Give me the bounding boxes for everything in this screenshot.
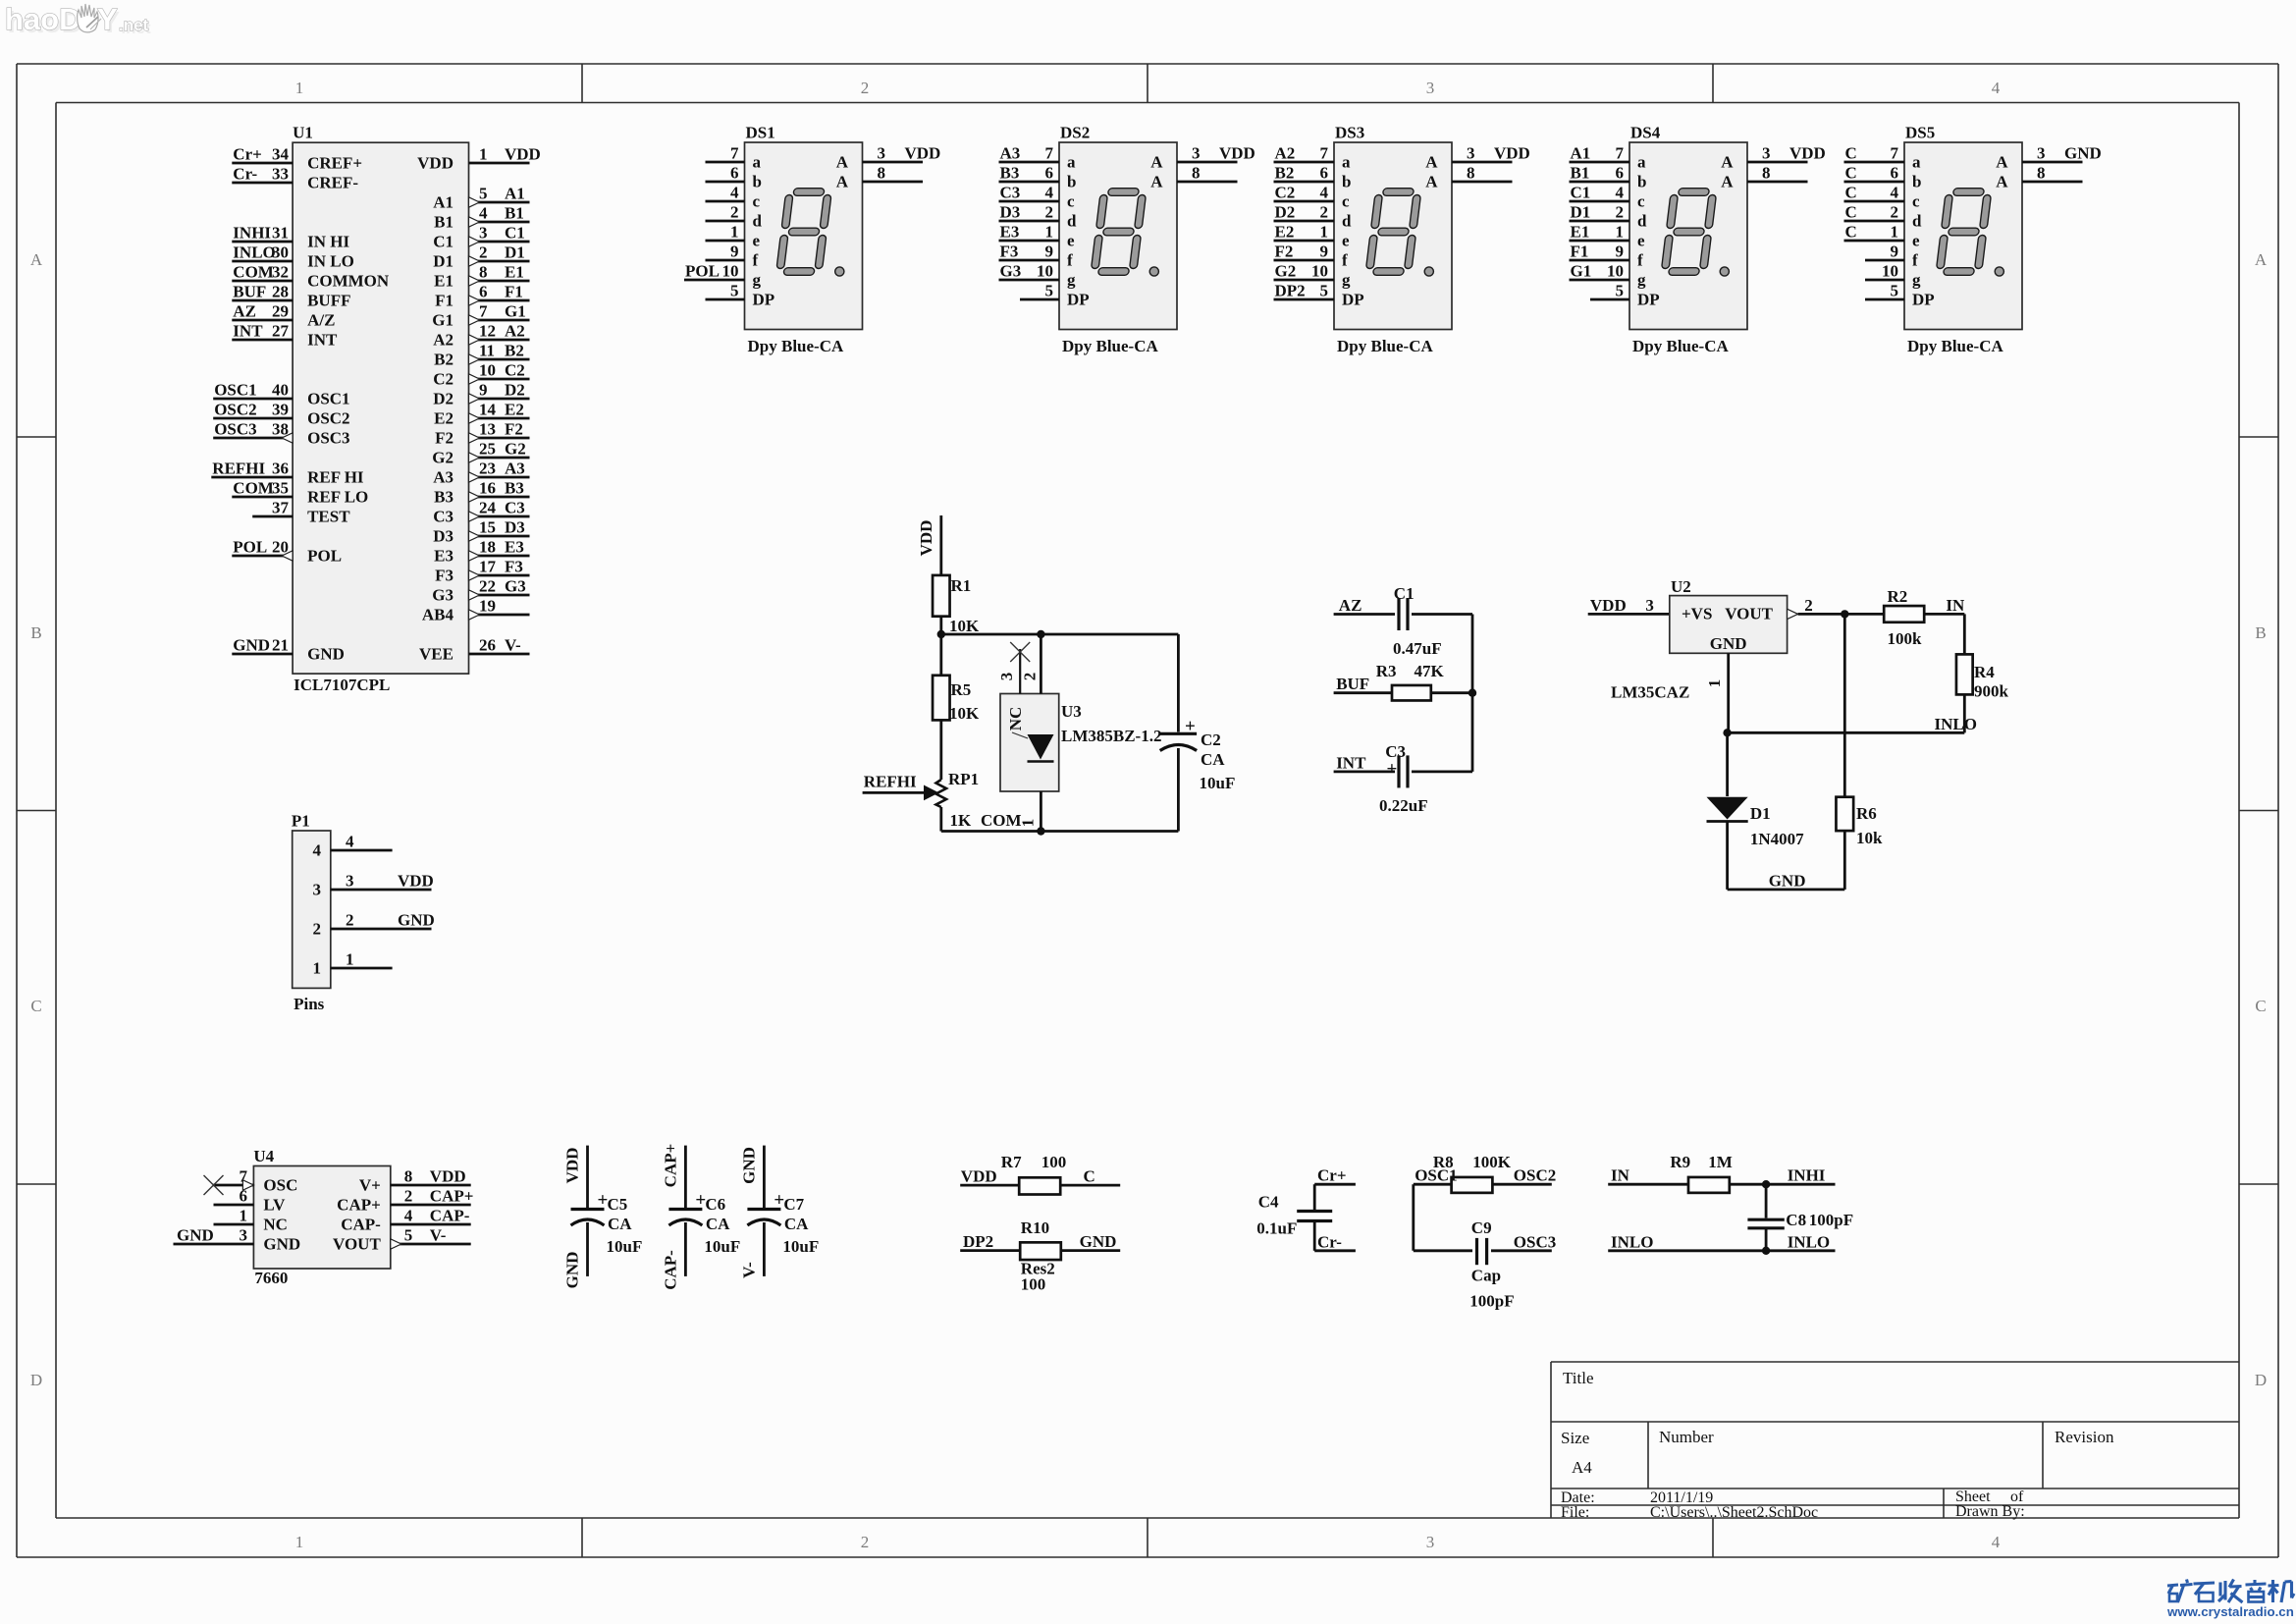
- svg-text:B3: B3: [505, 479, 524, 498]
- svg-text:R7: R7: [1001, 1153, 1022, 1171]
- svg-text:10K: 10K: [949, 617, 980, 635]
- svg-text:E1: E1: [1571, 223, 1590, 242]
- svg-text:Dpy Blue-CA: Dpy Blue-CA: [1062, 337, 1158, 355]
- svg-text:LM35CAZ: LM35CAZ: [1611, 683, 1689, 702]
- svg-text:a: a: [1342, 153, 1351, 172]
- svg-text:e: e: [753, 232, 761, 250]
- svg-text:34: 34: [272, 145, 290, 164]
- svg-text:AZ: AZ: [233, 302, 256, 321]
- svg-text:C3: C3: [1000, 184, 1021, 202]
- svg-text:f: f: [1912, 251, 1918, 270]
- svg-text:CAP-: CAP-: [661, 1250, 679, 1290]
- svg-text:C: C: [1845, 223, 1857, 242]
- svg-text:OSC1: OSC1: [307, 390, 349, 408]
- svg-text:CA: CA: [1201, 750, 1225, 769]
- svg-text:GND: GND: [398, 911, 435, 930]
- svg-text:17: 17: [479, 558, 497, 576]
- svg-text:B1: B1: [434, 213, 454, 232]
- svg-text:DS2: DS2: [1060, 124, 1090, 142]
- svg-text:D1: D1: [433, 252, 454, 271]
- svg-text:C2: C2: [433, 370, 454, 389]
- svg-text:DS3: DS3: [1335, 124, 1364, 142]
- svg-text:4: 4: [730, 184, 739, 202]
- svg-text:1: 1: [1320, 223, 1329, 242]
- svg-text:V-: V-: [430, 1226, 447, 1245]
- svg-text:10: 10: [1311, 262, 1328, 281]
- svg-text:18: 18: [479, 538, 496, 557]
- svg-text:Dpy Blue-CA: Dpy Blue-CA: [1632, 337, 1729, 355]
- svg-text:E3: E3: [1000, 223, 1020, 242]
- svg-text:NC: NC: [1006, 707, 1025, 731]
- svg-text:5: 5: [1320, 282, 1329, 300]
- svg-text:1N4007: 1N4007: [1750, 830, 1804, 848]
- svg-text:F1: F1: [435, 292, 454, 310]
- svg-text:6: 6: [1616, 164, 1625, 183]
- svg-text:4: 4: [479, 204, 488, 223]
- svg-text:1: 1: [479, 145, 488, 164]
- svg-text:CA: CA: [706, 1215, 730, 1233]
- svg-text:R2: R2: [1888, 587, 1908, 606]
- svg-text:7660: 7660: [254, 1269, 288, 1287]
- svg-text:Cr+: Cr+: [233, 145, 262, 164]
- svg-text:E3: E3: [434, 547, 454, 566]
- svg-text:F1: F1: [505, 283, 523, 301]
- svg-text:2: 2: [1804, 596, 1813, 615]
- svg-text:Size: Size: [1561, 1429, 1589, 1447]
- svg-text:+: +: [1387, 759, 1398, 780]
- svg-text:8: 8: [2037, 164, 2046, 183]
- svg-text:10uF: 10uF: [1200, 774, 1236, 792]
- svg-text:F2: F2: [1275, 243, 1294, 261]
- svg-text:d: d: [753, 212, 763, 231]
- svg-text:4: 4: [346, 833, 354, 851]
- svg-text:C: C: [30, 997, 41, 1015]
- svg-text:8: 8: [404, 1167, 413, 1186]
- svg-text:GND: GND: [307, 645, 345, 664]
- svg-text:CA: CA: [784, 1215, 809, 1233]
- svg-text:VEE: VEE: [419, 645, 454, 664]
- svg-text:INHI: INHI: [233, 224, 271, 243]
- svg-text:24: 24: [479, 499, 497, 517]
- svg-text:OSC2: OSC2: [307, 409, 349, 428]
- svg-text:C: C: [1845, 144, 1857, 163]
- svg-text:2: 2: [861, 1533, 870, 1551]
- svg-text:R6: R6: [1856, 804, 1877, 823]
- svg-text:4: 4: [1992, 79, 2001, 97]
- svg-text:C: C: [1084, 1167, 1095, 1186]
- svg-text:LM385BZ-1.2: LM385BZ-1.2: [1061, 727, 1161, 745]
- svg-text:A3: A3: [433, 468, 454, 487]
- svg-text:U3: U3: [1061, 702, 1082, 721]
- svg-text:A: A: [836, 173, 849, 191]
- svg-text:1: 1: [1705, 679, 1724, 688]
- svg-text:f: f: [1637, 251, 1643, 270]
- svg-text:3: 3: [313, 881, 322, 899]
- svg-text:F1: F1: [1571, 243, 1589, 261]
- svg-text:IN HI: IN HI: [307, 233, 349, 251]
- svg-text:R3: R3: [1376, 662, 1397, 680]
- svg-text:DP: DP: [1342, 291, 1364, 309]
- svg-text:C: C: [1845, 203, 1857, 222]
- svg-text:GND: GND: [2064, 144, 2102, 163]
- svg-text:Cr-: Cr-: [1317, 1232, 1342, 1251]
- svg-text:2: 2: [1891, 203, 1899, 222]
- svg-text:VOUT: VOUT: [333, 1235, 381, 1254]
- svg-text:900k: 900k: [1974, 682, 2009, 701]
- svg-text:12: 12: [479, 322, 496, 341]
- svg-text:a: a: [1637, 153, 1646, 172]
- svg-text:E3: E3: [505, 538, 524, 557]
- svg-text:B3: B3: [1000, 164, 1020, 183]
- svg-text:R9: R9: [1670, 1153, 1690, 1171]
- svg-text:7: 7: [1045, 144, 1054, 163]
- svg-text:g: g: [1637, 271, 1646, 290]
- svg-text:OSC3: OSC3: [1514, 1232, 1556, 1251]
- svg-text:R1: R1: [951, 576, 972, 595]
- svg-text:1M: 1M: [1708, 1153, 1733, 1171]
- svg-text:R10: R10: [1021, 1218, 1049, 1237]
- svg-text:40: 40: [272, 381, 289, 400]
- svg-text:c: c: [1342, 192, 1350, 211]
- svg-text:U2: U2: [1671, 577, 1691, 596]
- svg-text:D: D: [30, 1371, 42, 1389]
- svg-text:F3: F3: [505, 558, 523, 576]
- svg-text:VDD: VDD: [1219, 144, 1255, 163]
- svg-text:1: 1: [730, 223, 739, 242]
- svg-text:A2: A2: [505, 322, 525, 341]
- svg-text:C1: C1: [505, 224, 525, 243]
- svg-text:2: 2: [346, 911, 354, 930]
- svg-text:g: g: [1067, 271, 1076, 290]
- svg-text:36: 36: [272, 460, 289, 478]
- svg-text:1: 1: [1616, 223, 1625, 242]
- svg-text:C7: C7: [783, 1195, 804, 1214]
- svg-text:9: 9: [1320, 243, 1329, 261]
- svg-text:VDD: VDD: [961, 1167, 997, 1186]
- svg-text:Cap: Cap: [1471, 1267, 1501, 1285]
- svg-text:Dpy Blue-CA: Dpy Blue-CA: [1907, 337, 2003, 355]
- svg-text:VDD: VDD: [417, 154, 454, 173]
- svg-text:POL: POL: [685, 262, 720, 281]
- svg-text:CAP+: CAP+: [661, 1144, 679, 1188]
- svg-text:DP: DP: [1067, 291, 1090, 309]
- svg-text:INLO: INLO: [1788, 1232, 1830, 1251]
- svg-text:C2: C2: [1275, 184, 1296, 202]
- svg-text:C2: C2: [505, 361, 525, 380]
- svg-text:9: 9: [1891, 243, 1899, 261]
- svg-text:C1: C1: [1394, 584, 1415, 603]
- svg-text:C: C: [1845, 184, 1857, 202]
- svg-text:GND: GND: [177, 1226, 214, 1245]
- svg-text:POL: POL: [307, 547, 342, 566]
- svg-text:A2: A2: [1275, 144, 1296, 163]
- svg-text:C6: C6: [705, 1195, 725, 1214]
- svg-text:DP: DP: [753, 291, 775, 309]
- svg-text:C9: C9: [1471, 1218, 1492, 1237]
- svg-text:3: 3: [346, 872, 354, 891]
- svg-text:P1: P1: [292, 812, 310, 831]
- svg-text:100: 100: [1041, 1153, 1067, 1171]
- svg-text:CAP-: CAP-: [341, 1216, 381, 1234]
- svg-text:100k: 100k: [1888, 629, 1923, 648]
- svg-text:d: d: [1637, 212, 1647, 231]
- svg-text:A1: A1: [1571, 144, 1591, 163]
- svg-text:A: A: [1721, 153, 1734, 172]
- svg-text:16: 16: [479, 479, 496, 498]
- svg-text:c: c: [1912, 192, 1920, 211]
- svg-text:C3: C3: [505, 499, 525, 517]
- svg-text:C2: C2: [1201, 731, 1221, 749]
- svg-text:G3: G3: [505, 577, 526, 596]
- svg-text:A: A: [1996, 173, 2008, 191]
- svg-text:DS4: DS4: [1630, 124, 1661, 142]
- svg-text:A2: A2: [433, 331, 454, 350]
- svg-text:A: A: [1425, 173, 1438, 191]
- svg-text:INT: INT: [307, 331, 338, 350]
- svg-text:4: 4: [1616, 184, 1625, 202]
- svg-text:OSC: OSC: [263, 1176, 297, 1195]
- svg-text:100pF: 100pF: [1809, 1211, 1853, 1229]
- svg-text:5: 5: [730, 282, 739, 300]
- svg-text:Drawn By:: Drawn By:: [1955, 1503, 2025, 1520]
- svg-text:3: 3: [878, 144, 886, 163]
- svg-text:10uF: 10uF: [704, 1237, 740, 1256]
- svg-text:39: 39: [272, 401, 289, 419]
- svg-text:8: 8: [479, 263, 488, 282]
- svg-text:100: 100: [1021, 1275, 1046, 1294]
- svg-text:A: A: [30, 250, 43, 269]
- svg-text:C8: C8: [1786, 1211, 1806, 1229]
- svg-text:IN: IN: [1946, 596, 1965, 615]
- svg-text:19: 19: [479, 597, 496, 616]
- svg-text:GND: GND: [1080, 1232, 1117, 1251]
- svg-text:G1: G1: [1571, 262, 1592, 281]
- svg-text:IN LO: IN LO: [307, 252, 354, 271]
- svg-text:8: 8: [1467, 164, 1475, 183]
- svg-text:30: 30: [272, 244, 289, 262]
- svg-text:Title: Title: [1563, 1369, 1594, 1387]
- svg-text:c: c: [1067, 192, 1075, 211]
- svg-text:B: B: [2255, 623, 2266, 642]
- svg-text:DP: DP: [1912, 291, 1935, 309]
- svg-text:GND: GND: [563, 1252, 582, 1289]
- svg-text:g: g: [753, 271, 762, 290]
- svg-text:E1: E1: [505, 263, 524, 282]
- svg-text:3: 3: [1645, 596, 1654, 615]
- svg-text:A1: A1: [505, 185, 525, 203]
- svg-text:E2: E2: [1275, 223, 1295, 242]
- svg-text:G3: G3: [432, 586, 454, 605]
- svg-text:CA: CA: [608, 1215, 632, 1233]
- svg-text:F2: F2: [505, 420, 523, 439]
- svg-text:33: 33: [272, 165, 289, 184]
- svg-text:22: 22: [479, 577, 496, 596]
- svg-text:C1: C1: [433, 233, 454, 251]
- svg-text:C1: C1: [1571, 184, 1591, 202]
- svg-text:COM: COM: [233, 479, 274, 498]
- svg-text:26: 26: [479, 636, 496, 655]
- svg-text:5: 5: [1045, 282, 1054, 300]
- svg-text:G1: G1: [505, 302, 526, 321]
- svg-text:VDD: VDD: [398, 872, 434, 891]
- svg-text:0.22uF: 0.22uF: [1379, 796, 1428, 815]
- svg-text:5: 5: [404, 1226, 413, 1245]
- svg-text:4: 4: [1891, 184, 1899, 202]
- svg-text:c: c: [753, 192, 761, 211]
- svg-text:DS1: DS1: [746, 124, 775, 142]
- svg-text:a: a: [1912, 153, 1921, 172]
- svg-text:D1: D1: [505, 244, 525, 262]
- svg-text:REFHI: REFHI: [212, 460, 265, 478]
- svg-text:1: 1: [295, 1533, 304, 1551]
- svg-text:CAP+: CAP+: [337, 1196, 381, 1215]
- svg-text:A: A: [2255, 250, 2268, 269]
- svg-text:2: 2: [730, 203, 739, 222]
- svg-text:REFHI: REFHI: [864, 773, 917, 791]
- svg-text:OSC2: OSC2: [1514, 1166, 1556, 1185]
- svg-text:R8: R8: [1433, 1153, 1454, 1171]
- svg-text:C:\Users\..\Sheet2.SchDoc: C:\Users\..\Sheet2.SchDoc: [1650, 1504, 1818, 1521]
- svg-text:INHI: INHI: [1788, 1166, 1826, 1185]
- svg-text:b: b: [1637, 173, 1646, 191]
- svg-text:7: 7: [1616, 144, 1625, 163]
- svg-text:E2: E2: [434, 409, 454, 428]
- svg-text:10: 10: [1037, 262, 1053, 281]
- svg-text:VOUT: VOUT: [1725, 604, 1773, 623]
- svg-text:f: f: [1067, 251, 1073, 270]
- svg-text:g: g: [1342, 271, 1351, 290]
- svg-text:A4: A4: [1572, 1458, 1592, 1477]
- svg-text:31: 31: [272, 224, 289, 243]
- svg-text:b: b: [1067, 173, 1076, 191]
- svg-text:COM: COM: [981, 811, 1022, 830]
- svg-text:COM: COM: [233, 263, 274, 282]
- svg-text:8: 8: [878, 164, 886, 183]
- svg-text:C5: C5: [608, 1195, 628, 1214]
- svg-text:32: 32: [272, 263, 289, 282]
- svg-text:A/Z: A/Z: [307, 311, 335, 330]
- svg-text:D3: D3: [1000, 203, 1021, 222]
- svg-text:IN: IN: [1611, 1166, 1630, 1185]
- svg-text:e: e: [1067, 232, 1075, 250]
- svg-text:14: 14: [479, 401, 497, 419]
- svg-text:b: b: [1342, 173, 1351, 191]
- svg-text:A3: A3: [1000, 144, 1021, 163]
- svg-text:OSC3: OSC3: [214, 420, 256, 439]
- svg-text:d: d: [1912, 212, 1922, 231]
- svg-text:www.crystalradio.cn: www.crystalradio.cn: [2166, 1604, 2294, 1619]
- svg-text:D2: D2: [505, 381, 525, 400]
- svg-text:c: c: [1637, 192, 1645, 211]
- svg-text:3: 3: [479, 224, 488, 243]
- svg-text:3: 3: [997, 673, 1016, 681]
- svg-text:13: 13: [479, 420, 496, 439]
- svg-text:VDD: VDD: [1789, 144, 1826, 163]
- svg-text:GND: GND: [1710, 634, 1747, 653]
- svg-text:VDD: VDD: [905, 144, 941, 163]
- svg-text:V-: V-: [739, 1262, 758, 1278]
- svg-text:3: 3: [1762, 144, 1771, 163]
- svg-text:29: 29: [272, 302, 289, 321]
- svg-text:35: 35: [272, 479, 289, 498]
- svg-text:9: 9: [1045, 243, 1054, 261]
- svg-text:GND: GND: [1769, 871, 1806, 890]
- svg-text:2: 2: [1045, 203, 1054, 222]
- svg-text:.net: .net: [119, 16, 149, 34]
- svg-text:g: g: [1912, 271, 1921, 290]
- svg-text:Cr-: Cr-: [233, 165, 257, 184]
- svg-text:f: f: [1342, 251, 1348, 270]
- svg-text:10: 10: [1882, 262, 1898, 281]
- svg-text:Revision: Revision: [2055, 1428, 2114, 1446]
- svg-text:CAP+: CAP+: [430, 1187, 474, 1206]
- svg-text:B1: B1: [505, 204, 524, 223]
- svg-text:6: 6: [479, 283, 488, 301]
- svg-text:DS5: DS5: [1905, 124, 1935, 142]
- svg-text:G2: G2: [505, 440, 526, 459]
- svg-text:ICL7107CPL: ICL7107CPL: [294, 676, 390, 694]
- svg-text:9: 9: [1616, 243, 1625, 261]
- svg-text:A3: A3: [505, 460, 525, 478]
- svg-text:VDD: VDD: [917, 520, 935, 557]
- svg-text:7: 7: [1891, 144, 1899, 163]
- svg-text:GND: GND: [739, 1147, 758, 1184]
- svg-text:15: 15: [479, 518, 496, 537]
- svg-text:0.1uF: 0.1uF: [1256, 1219, 1297, 1238]
- svg-text:5: 5: [1891, 282, 1899, 300]
- svg-text:1: 1: [240, 1207, 248, 1225]
- svg-text:D: D: [2255, 1371, 2267, 1389]
- svg-text:V-: V-: [505, 636, 521, 655]
- svg-text:G2: G2: [1275, 262, 1297, 281]
- svg-text:A: A: [1996, 153, 2008, 172]
- svg-text:2: 2: [404, 1187, 413, 1206]
- svg-text:Dpy Blue-CA: Dpy Blue-CA: [1337, 337, 1433, 355]
- svg-text:1: 1: [1891, 223, 1899, 242]
- svg-text:Dpy Blue-CA: Dpy Blue-CA: [748, 337, 844, 355]
- svg-text:37: 37: [272, 499, 290, 517]
- svg-text:D1: D1: [1571, 203, 1591, 222]
- svg-text:C: C: [2255, 997, 2266, 1015]
- svg-text:INT: INT: [233, 322, 263, 341]
- svg-text:2: 2: [313, 920, 322, 939]
- svg-text:21: 21: [272, 636, 289, 655]
- svg-text:5: 5: [1616, 282, 1625, 300]
- svg-text:3: 3: [1426, 1533, 1435, 1551]
- svg-text:6: 6: [1045, 164, 1054, 183]
- svg-text:10k: 10k: [1856, 829, 1883, 847]
- svg-text:100K: 100K: [1472, 1153, 1512, 1171]
- svg-text:8: 8: [1762, 164, 1771, 183]
- svg-text:9: 9: [479, 381, 488, 400]
- svg-text:BUF: BUF: [1336, 675, 1369, 693]
- svg-text:5: 5: [479, 185, 488, 203]
- svg-text:INT: INT: [1336, 753, 1366, 772]
- svg-text:23: 23: [479, 460, 496, 478]
- svg-text:Number: Number: [1659, 1428, 1714, 1446]
- svg-text:VDD: VDD: [430, 1167, 466, 1186]
- svg-text:e: e: [1342, 232, 1350, 250]
- svg-text:B1: B1: [1571, 164, 1590, 183]
- svg-text:4: 4: [1992, 1533, 2001, 1551]
- svg-text:G2: G2: [432, 449, 454, 467]
- svg-text:+VS: +VS: [1682, 604, 1712, 623]
- svg-text:E1: E1: [434, 272, 454, 291]
- svg-text:LV: LV: [263, 1196, 286, 1215]
- svg-text:R5: R5: [951, 680, 972, 699]
- svg-text:7: 7: [730, 144, 739, 163]
- svg-text:d: d: [1342, 212, 1352, 231]
